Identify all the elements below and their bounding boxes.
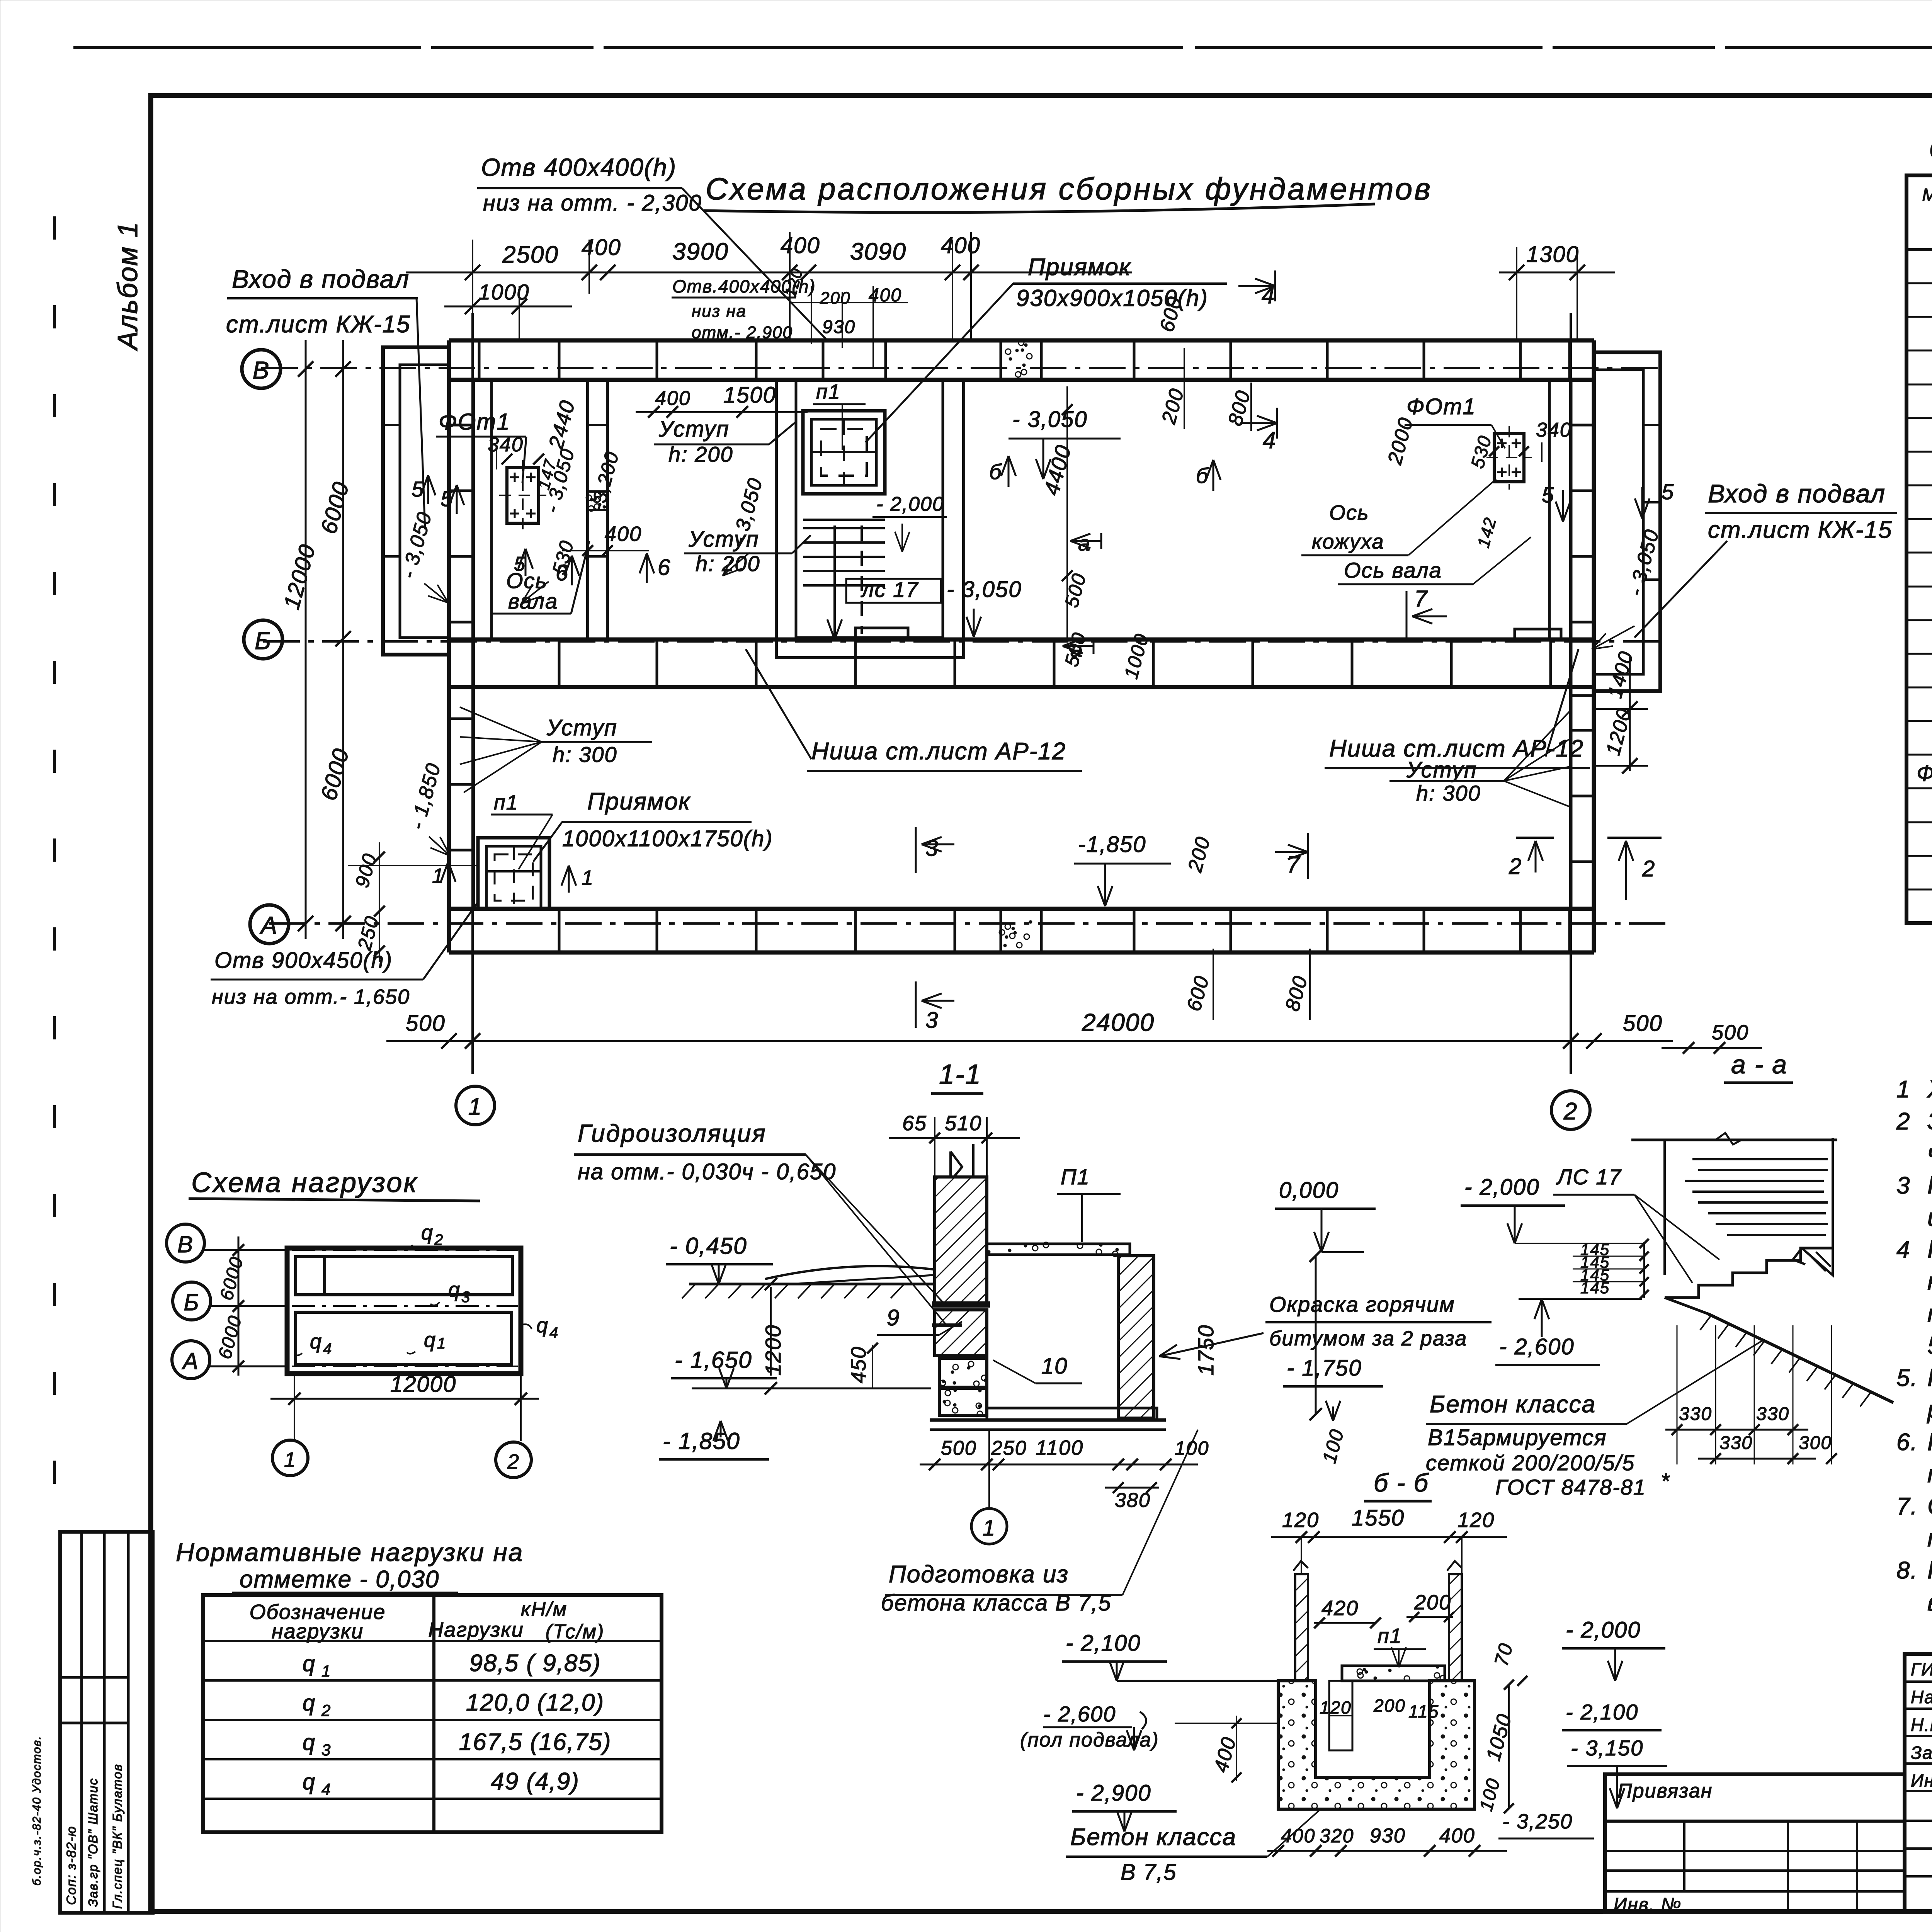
svg-text:- 3,150: - 3,150 — [1571, 1736, 1643, 1760]
svg-text:ст.лист КЖ-15: ст.лист КЖ-15 — [1708, 517, 1893, 543]
svg-text:Гл.спец "ВК" Булатов: Гл.спец "ВК" Булатов — [110, 1764, 124, 1909]
svg-text:Вход в подвал: Вход в подвал — [1708, 479, 1886, 508]
svg-text:1: 1 — [321, 1662, 331, 1680]
svg-text:Инж.: Инж. — [1911, 1770, 1932, 1791]
svg-text:4: 4 — [1263, 427, 1276, 453]
svg-text:167,5 (16,75): 167,5 (16,75) — [459, 1729, 612, 1755]
svg-text:Приямок: Приямок — [587, 788, 691, 815]
svg-text:телого кирпича марки 75 на: телого кирпича марки 75 на растворе марк… — [1927, 1460, 1932, 1488]
svg-text:100: 100 — [1175, 1437, 1209, 1459]
svg-text:- 2,600: - 2,600 — [1043, 1702, 1116, 1726]
svg-text:П1: П1 — [1061, 1165, 1090, 1189]
svg-text:растворе марки 50.: растворе марки 50. — [1927, 1396, 1932, 1423]
svg-text:1750: 1750 — [1194, 1324, 1218, 1376]
svg-text:120: 120 — [1320, 1697, 1352, 1718]
svg-text:Соп: з-82-ю: Соп: з-82-ю — [64, 1826, 79, 1905]
svg-text:А: А — [259, 912, 278, 939]
svg-text:В: В — [177, 1231, 194, 1257]
svg-text:q: q — [303, 1769, 316, 1794]
svg-text:6: 6 — [658, 555, 671, 580]
svg-text:кожуха: кожуха — [1312, 530, 1384, 553]
svg-text:Зав.гр "ОВ" Шатис: Зав.гр "ОВ" Шатис — [86, 1778, 100, 1907]
svg-text:Нижний ряд блоков укладыват: Нижний ряд блоков укладывать на выравнен… — [1927, 1235, 1932, 1263]
svg-text:3: 3 — [1896, 1172, 1910, 1199]
svg-text:5: 5 — [1542, 483, 1554, 507]
svg-text:Ниша ст.лист АР-12: Ниша ст.лист АР-12 — [811, 738, 1066, 765]
svg-text:Характеристику грунтов ст. п: Характеристику грунтов ст. пояснительную… — [1927, 1075, 1932, 1103]
svg-text:В 7,5: В 7,5 — [1121, 1860, 1177, 1885]
svg-text:500: 500 — [1623, 1011, 1663, 1036]
svg-text:340: 340 — [488, 434, 524, 456]
svg-text:q: q — [303, 1690, 316, 1716]
svg-text:330: 330 — [1756, 1404, 1789, 1424]
svg-text:чистого пола, что соответству: чистого пола, что соответствует абсолютн… — [1927, 1139, 1932, 1167]
svg-text:510: 510 — [945, 1112, 982, 1135]
svg-text:200: 200 — [820, 289, 850, 308]
svg-text:q: q — [421, 1221, 434, 1244]
svg-text:400: 400 — [655, 387, 691, 410]
svg-text:Отв 900х450(h): Отв 900х450(h) — [214, 948, 393, 973]
svg-text:Уступ: Уступ — [688, 527, 759, 552]
svg-text:кН/м: кН/м — [521, 1598, 567, 1621]
svg-text:Окраска горячим: Окраска горячим — [1269, 1292, 1455, 1316]
svg-text:q: q — [310, 1330, 322, 1353]
svg-text:120,0 (12,0): 120,0 (12,0) — [466, 1689, 604, 1716]
svg-text:7.: 7. — [1896, 1493, 1918, 1520]
svg-text:нагрузки: нагрузки — [272, 1620, 364, 1643]
svg-text:Уступ: Уступ — [1406, 757, 1477, 782]
svg-text:2: 2 — [1642, 856, 1655, 881]
svg-text:Кладку бетонных блоков выпо: Кладку бетонных блоков выполнять на цеме… — [1927, 1364, 1932, 1391]
svg-text:400: 400 — [582, 235, 621, 260]
svg-text:- 2,100: - 2,100 — [1566, 1700, 1638, 1724]
svg-text:- 2,000: - 2,000 — [876, 493, 944, 515]
svg-text:115: 115 — [1408, 1701, 1439, 1721]
svg-text:65: 65 — [902, 1112, 927, 1135]
svg-text:1200: 1200 — [761, 1324, 785, 1376]
svg-text:ное основание (при песчаных: ное основание (при песчаных грунтах) или… — [1927, 1267, 1932, 1295]
svg-text:5.: 5. — [1896, 1365, 1918, 1391]
svg-text:битумом за 2 раза: битумом за 2 раза — [1269, 1327, 1467, 1350]
svg-text:250: 250 — [991, 1437, 1027, 1459]
svg-text:3900: 3900 — [672, 238, 729, 265]
svg-text:1000х1100х1750(h): 1000х1100х1750(h) — [562, 826, 773, 851]
svg-text:том, обмазать горячим битум: том, обмазать горячим битумом за 2 раза. — [1927, 1524, 1932, 1552]
svg-text:2: 2 — [434, 1231, 444, 1248]
svg-text:Б: Б — [255, 627, 272, 655]
svg-text:400: 400 — [605, 522, 642, 546]
svg-text:варианта при толщине стены: варианта при толщине стены 510мм. — [1927, 1588, 1932, 1616]
svg-text:930: 930 — [822, 317, 855, 337]
svg-text:А: А — [182, 1348, 199, 1374]
svg-text:В: В — [253, 356, 270, 384]
svg-text:Нагрузки: Нагрузки — [428, 1618, 524, 1641]
svg-text:1: 1 — [1896, 1076, 1910, 1103]
svg-text:340: 340 — [1536, 419, 1572, 441]
svg-text:- 1,750: - 1,750 — [1287, 1355, 1362, 1381]
svg-text:(Тс/м): (Тс/м) — [546, 1621, 605, 1643]
svg-text:Ось: Ось — [1329, 501, 1369, 524]
svg-text:h: 300: h: 300 — [1416, 781, 1481, 805]
svg-text:Стены подвала и приятка, со: Стены подвала и приятка, соприкасающиеся… — [1927, 1492, 1932, 1520]
svg-text:-1,850: -1,850 — [1078, 832, 1146, 857]
svg-text:420: 420 — [1321, 1597, 1359, 1620]
svg-text:низ на: низ на — [692, 302, 747, 321]
svg-text:- 3,250: - 3,250 — [1502, 1810, 1573, 1833]
svg-text:Кирпичные стенки приятка вы: Кирпичные стенки приятка выкладывать из … — [1927, 1428, 1932, 1456]
svg-text:1: 1 — [437, 1335, 446, 1352]
svg-text:на отм.- 0,030ч - 0,650: на отм.- 0,030ч - 0,650 — [578, 1159, 836, 1184]
svg-text:8.: 8. — [1896, 1557, 1918, 1584]
svg-text:2: 2 — [1563, 1098, 1578, 1125]
svg-text:ФОт1: ФОт1 — [1917, 761, 1932, 786]
svg-text:- 2,000: - 2,000 — [1566, 1617, 1641, 1643]
svg-text:ГОСТ 8478-81: ГОСТ 8478-81 — [1495, 1475, 1646, 1499]
svg-text:1500: 1500 — [723, 383, 776, 408]
svg-text:Спецификация к схеме располо: Спецификация к схеме расположения фундам… — [1929, 133, 1932, 165]
svg-text:- 2,000: - 2,000 — [1464, 1175, 1540, 1200]
svg-text:1300: 1300 — [1526, 242, 1579, 267]
svg-text:Схема расположения сборных: Схема расположения сборных фундаментов — [706, 172, 1432, 206]
svg-text:930: 930 — [1370, 1825, 1406, 1847]
svg-text:400: 400 — [781, 233, 820, 258]
svg-text:ФОт1: ФОт1 — [1406, 394, 1476, 419]
svg-text:Альбом 1: Альбом 1 — [112, 221, 143, 351]
svg-text:380: 380 — [1115, 1489, 1151, 1512]
svg-text:3: 3 — [461, 1289, 471, 1306]
svg-text:7: 7 — [1414, 586, 1428, 612]
svg-text:б: б — [989, 459, 1002, 484]
svg-text:Привязан: Привязан — [1617, 1780, 1713, 1802]
svg-text:Отв 400х400(h): Отв 400х400(h) — [481, 153, 677, 181]
svg-text:98,5 ( 9,85): 98,5 ( 9,85) — [469, 1650, 601, 1677]
svg-text:200: 200 — [1414, 1591, 1451, 1614]
svg-text:1-1: 1-1 — [939, 1059, 981, 1090]
svg-text:h: 300: h: 300 — [553, 742, 617, 767]
svg-text:400: 400 — [941, 233, 981, 258]
svg-text:Ось вала: Ось вала — [1344, 558, 1442, 582]
svg-text:0,000: 0,000 — [1279, 1178, 1339, 1203]
svg-text:450: 450 — [847, 1346, 870, 1383]
svg-text:49 (4,9): 49 (4,9) — [491, 1768, 580, 1795]
svg-text:330: 330 — [1679, 1404, 1712, 1424]
svg-text:лс 17: лс 17 — [861, 577, 918, 602]
svg-text:сеткой 200/200/5/5: сеткой 200/200/5/5 — [1426, 1451, 1635, 1475]
svg-text:12000: 12000 — [390, 1372, 456, 1397]
svg-text:низ на отт.- 1,650: низ на отт.- 1,650 — [212, 985, 410, 1009]
svg-text:2: 2 — [507, 1450, 520, 1473]
svg-text:h: 200: h: 200 — [696, 551, 760, 576]
svg-text:4: 4 — [1896, 1236, 1910, 1263]
svg-text:- 0,450: - 0,450 — [670, 1233, 747, 1259]
svg-text:2: 2 — [1509, 854, 1522, 879]
svg-text:2: 2 — [1896, 1108, 1910, 1135]
svg-text:вала: вала — [508, 589, 558, 613]
svg-text:Инв. №: Инв. № — [1614, 1895, 1682, 1915]
svg-text:1: 1 — [284, 1448, 296, 1471]
svg-text:1550: 1550 — [1352, 1505, 1405, 1531]
svg-text:ст.лист КЖ-15: ст.лист КЖ-15 — [226, 311, 411, 338]
svg-text:Н.контр.: Н.контр. — [1911, 1715, 1932, 1735]
svg-text:б - б: б - б — [1374, 1468, 1429, 1497]
svg-text:отм.- 2,900: отм.- 2,900 — [692, 323, 793, 342]
svg-text:200: 200 — [1373, 1696, 1406, 1716]
svg-text:- 2,100: - 2,100 — [1066, 1631, 1141, 1656]
svg-text:q: q — [303, 1651, 316, 1676]
svg-text:отметке - 0,030: отметке - 0,030 — [240, 1566, 439, 1593]
svg-text:- 2,900: - 2,900 — [1076, 1781, 1151, 1806]
svg-text:500: 500 — [1712, 1021, 1749, 1044]
svg-text:Подготовка из: Подготовка из — [889, 1561, 1069, 1588]
svg-text:тельно уплотненную песчаную: тельно уплотненную песчаную подсыпку тол… — [1927, 1299, 1932, 1327]
svg-text:q: q — [303, 1730, 316, 1755]
svg-text:ГИП: ГИП — [1911, 1659, 1932, 1679]
svg-text:Гидроизоляция стен на отм.: Гидроизоляция стен на отм. - 0,030ч - 0,… — [1927, 1171, 1932, 1199]
svg-text:Бетон класса: Бетон класса — [1430, 1391, 1596, 1418]
svg-text:3: 3 — [925, 1008, 939, 1033]
svg-text:2: 2 — [321, 1701, 331, 1719]
svg-text:низ на отт. - 2,300: низ на отт. - 2,300 — [483, 190, 702, 216]
svg-text:h: 200: h: 200 — [668, 442, 733, 466]
svg-text:Нормативные нагрузки на: Нормативные нагрузки на — [176, 1538, 524, 1566]
svg-text:За относительную отметку 0,: За относительную отметку 0,000 условно п… — [1927, 1107, 1932, 1135]
svg-text:а - а: а - а — [1731, 1050, 1787, 1079]
svg-text:ЛС 17: ЛС 17 — [1556, 1165, 1622, 1189]
svg-text:п1: п1 — [1378, 1624, 1402, 1648]
svg-text:- 3,050: - 3,050 — [947, 577, 1022, 602]
svg-text:q: q — [536, 1314, 549, 1337]
svg-text:Приямок: Приямок — [1028, 254, 1131, 281]
svg-text:Зав.гр: Зав.гр — [1911, 1743, 1932, 1763]
svg-text:4: 4 — [323, 1340, 332, 1357]
svg-text:400: 400 — [1439, 1825, 1475, 1847]
svg-text:1: 1 — [468, 1094, 482, 1120]
svg-text:Нач отд: Нач отд — [1911, 1687, 1932, 1707]
svg-text:1: 1 — [582, 866, 594, 889]
svg-text:*: * — [1661, 1469, 1670, 1493]
svg-text:q: q — [424, 1328, 436, 1352]
svg-text:120: 120 — [1282, 1509, 1319, 1532]
svg-text:4: 4 — [549, 1324, 559, 1341]
svg-text:300: 300 — [1799, 1433, 1832, 1453]
svg-text:Уступ: Уступ — [658, 417, 730, 442]
svg-text:1000: 1000 — [478, 280, 530, 304]
svg-text:Б: Б — [184, 1289, 199, 1315]
svg-text:3090: 3090 — [850, 238, 906, 265]
svg-text:120: 120 — [1458, 1509, 1495, 1532]
svg-text:2500: 2500 — [502, 241, 559, 268]
svg-text:цементного раствора состава: цементного раствора состава 1: 2 толщино… — [1927, 1203, 1932, 1231]
svg-text:50мм (при прочих грунтах).: 50мм (при прочих грунтах). — [1927, 1332, 1932, 1359]
svg-text:п1: п1 — [494, 791, 519, 814]
svg-text:Уступ: Уступ — [546, 715, 617, 740]
svg-text:9: 9 — [887, 1305, 900, 1330]
svg-text:- 1,850: - 1,850 — [663, 1428, 740, 1454]
svg-text:5: 5 — [1662, 480, 1674, 504]
svg-text:500: 500 — [406, 1011, 446, 1036]
svg-text:- 2,600: - 2,600 — [1499, 1334, 1575, 1359]
svg-text:Марка: Марка — [1922, 185, 1932, 205]
svg-text:q: q — [448, 1278, 461, 1301]
svg-text:Нагрузки на фундаменты даны: Нагрузки на фундаменты даны для основног… — [1927, 1556, 1932, 1584]
svg-text:Бетон класса: Бетон класса — [1070, 1824, 1236, 1850]
svg-text:Вход в подвал: Вход в подвал — [232, 265, 410, 293]
svg-text:бетона класса В 7,5: бетона класса В 7,5 — [881, 1590, 1112, 1616]
svg-text:6: 6 — [556, 560, 569, 585]
svg-text:Гидроизоляция: Гидроизоляция — [578, 1119, 767, 1147]
svg-text:6.: 6. — [1896, 1429, 1918, 1456]
svg-text:4: 4 — [321, 1780, 331, 1798]
svg-text:10: 10 — [1041, 1354, 1068, 1379]
svg-text:- 1,650: - 1,650 — [675, 1347, 752, 1373]
svg-text:Схема нагрузок: Схема нагрузок — [191, 1167, 418, 1198]
svg-text:п1: п1 — [816, 380, 841, 403]
svg-text:500: 500 — [941, 1437, 977, 1459]
svg-text:ФОт1: ФОт1 — [439, 409, 510, 435]
svg-text:- 3,050: - 3,050 — [1012, 407, 1088, 432]
svg-text:320: 320 — [1320, 1825, 1354, 1847]
svg-text:330: 330 — [1719, 1433, 1753, 1453]
svg-text:24000: 24000 — [1082, 1009, 1155, 1036]
svg-text:1100: 1100 — [1036, 1436, 1083, 1459]
svg-text:б.ор.ч.з.-82-40 Удостов.: б.ор.ч.з.-82-40 Удостов. — [31, 1735, 43, 1886]
svg-text:В15армируется: В15армируется — [1428, 1425, 1607, 1450]
svg-text:1: 1 — [983, 1515, 996, 1541]
svg-text:3: 3 — [321, 1741, 331, 1759]
